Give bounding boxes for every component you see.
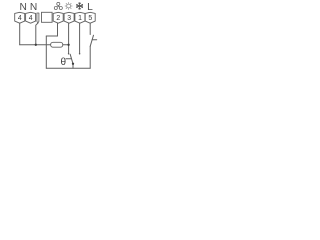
wire oval to node	[63, 44, 69, 46]
wire switch to bottom rail	[89, 46, 91, 68]
wire from narrow bridge terminal down to bus	[36, 23, 38, 45]
resistor R (anticipator oval)	[51, 42, 63, 47]
wire pivot to bottom rail	[72, 64, 74, 68]
node junction dot on bus	[35, 44, 37, 46]
svg-text:N: N	[20, 2, 27, 13]
svg-text:L: L	[87, 2, 93, 13]
neutral bus wire	[20, 44, 51, 46]
thermostat blade	[70, 54, 73, 64]
terminal 4 (right N)	[26, 12, 36, 23]
thermostat pivot dot	[72, 63, 74, 65]
snowflake symbol (cooling, above terminal 1)	[76, 2, 83, 10]
wire terminal 1 down to contact	[79, 23, 81, 53]
terminal 5 (L)	[85, 12, 95, 23]
empty square box	[42, 12, 53, 22]
svg-text:5: 5	[88, 15, 92, 22]
svg-text:θ: θ	[61, 57, 67, 68]
wire left riser down	[45, 36, 47, 68]
contact dot terminal 1	[79, 53, 81, 55]
bottom rail wire	[46, 67, 90, 69]
svg-text:2: 2	[56, 15, 60, 22]
terminal 4 (left N)	[15, 12, 25, 23]
svg-text:3: 3	[67, 15, 71, 22]
terminal 1 (cooling)	[75, 12, 85, 23]
wire terminal 2 jog down-left	[46, 23, 57, 36]
svg-text:1: 1	[78, 15, 82, 22]
node junction dot at oval/terminal3 wire	[67, 44, 69, 46]
sun symbol (heating, above terminal 3)	[65, 2, 73, 10]
main switch actuator bar	[92, 39, 97, 41]
wire from terminal 4 left down to bus	[19, 23, 21, 45]
wire terminal 3 down to contact	[68, 23, 70, 53]
contact dot terminal 3	[68, 53, 70, 55]
main switch blade	[90, 35, 93, 46]
svg-text:N: N	[30, 2, 37, 13]
terminal 2 (fan)	[53, 12, 63, 23]
fan symbol (above terminal 2)	[54, 2, 62, 9]
thermostat actuator link	[66, 58, 72, 60]
terminal 3 (heating)	[64, 12, 74, 23]
wire terminal 5 down to switch contact	[89, 23, 91, 34]
narrow bridge terminal	[37, 13, 39, 23]
svg-text:4: 4	[18, 15, 22, 22]
svg-text:4: 4	[29, 15, 33, 22]
